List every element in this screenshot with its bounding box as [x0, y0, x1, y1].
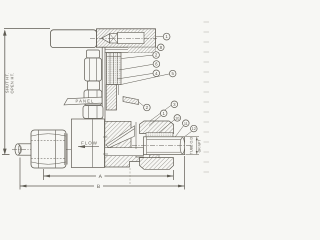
handle bar — [51, 30, 97, 48]
callout 8 — [156, 44, 164, 51]
svg-text:12: 12 — [192, 127, 196, 131]
gland column — [106, 85, 118, 111]
callout 6 — [119, 61, 160, 70]
callout 10 — [159, 115, 181, 133]
svg-text:TUBE O.D: TUBE O.D — [189, 137, 193, 155]
outlet centerline — [132, 145, 191, 147]
hub cavity slot — [118, 32, 145, 43]
outlet nut upper — [140, 121, 174, 134]
stem cone point — [101, 34, 109, 43]
svg-text:OR NPT: OR NPT — [197, 140, 201, 153]
inlet centerline — [12, 149, 72, 151]
svg-text:11: 11 — [184, 122, 188, 126]
callout 2 — [122, 52, 160, 59]
callout 1 (handle) — [156, 33, 170, 40]
centerline — [90, 37, 157, 39]
callout 4 — [117, 70, 160, 79]
callout 3 — [150, 101, 178, 121]
stem wedge part — [123, 97, 139, 105]
port ticks — [103, 136, 108, 138]
callout 5 — [121, 70, 176, 84]
dimension A — [44, 169, 174, 180]
tube OD dimension — [186, 137, 200, 155]
stem square — [110, 34, 118, 43]
callout 12 — [185, 125, 197, 136]
counterbore gap — [135, 122, 137, 149]
flow arrow — [78, 145, 99, 148]
bonnet flange band — [105, 47, 156, 53]
PANEL flag label — [64, 97, 102, 105]
svg-text:FLOW: FLOW — [81, 141, 98, 146]
hidden line below body — [129, 168, 131, 184]
ferrule dotted band — [146, 133, 173, 137]
callout 2b — [138, 102, 150, 111]
valve body section (hatched) — [103, 121, 144, 167]
svg-text:10: 10 — [175, 117, 179, 121]
inlet tube stub — [15, 144, 31, 155]
page edge marks — [204, 22, 210, 172]
callout 1b — [149, 110, 167, 126]
outlet lower hatch sliver — [150, 155, 160, 165]
flow bore — [105, 148, 144, 156]
panel plate — [102, 47, 105, 129]
callout 11 — [176, 120, 190, 137]
packing box column — [107, 53, 122, 85]
outlet tube — [144, 137, 185, 155]
panel nut stack (external) — [83, 50, 103, 118]
valve body front (external) — [71, 119, 104, 168]
svg-text:PANEL: PANEL — [76, 99, 95, 104]
svg-text:OPEN HT.: OPEN HT. — [10, 73, 15, 94]
handle hub (sectioned) — [90, 29, 157, 47]
shut/open height dimension — [2, 29, 50, 155]
inlet nut — [31, 130, 67, 168]
needle — [109, 129, 135, 146]
dimension B — [20, 156, 185, 190]
seat wedge cavity — [106, 126, 135, 148]
outlet nut lower — [140, 158, 174, 170]
